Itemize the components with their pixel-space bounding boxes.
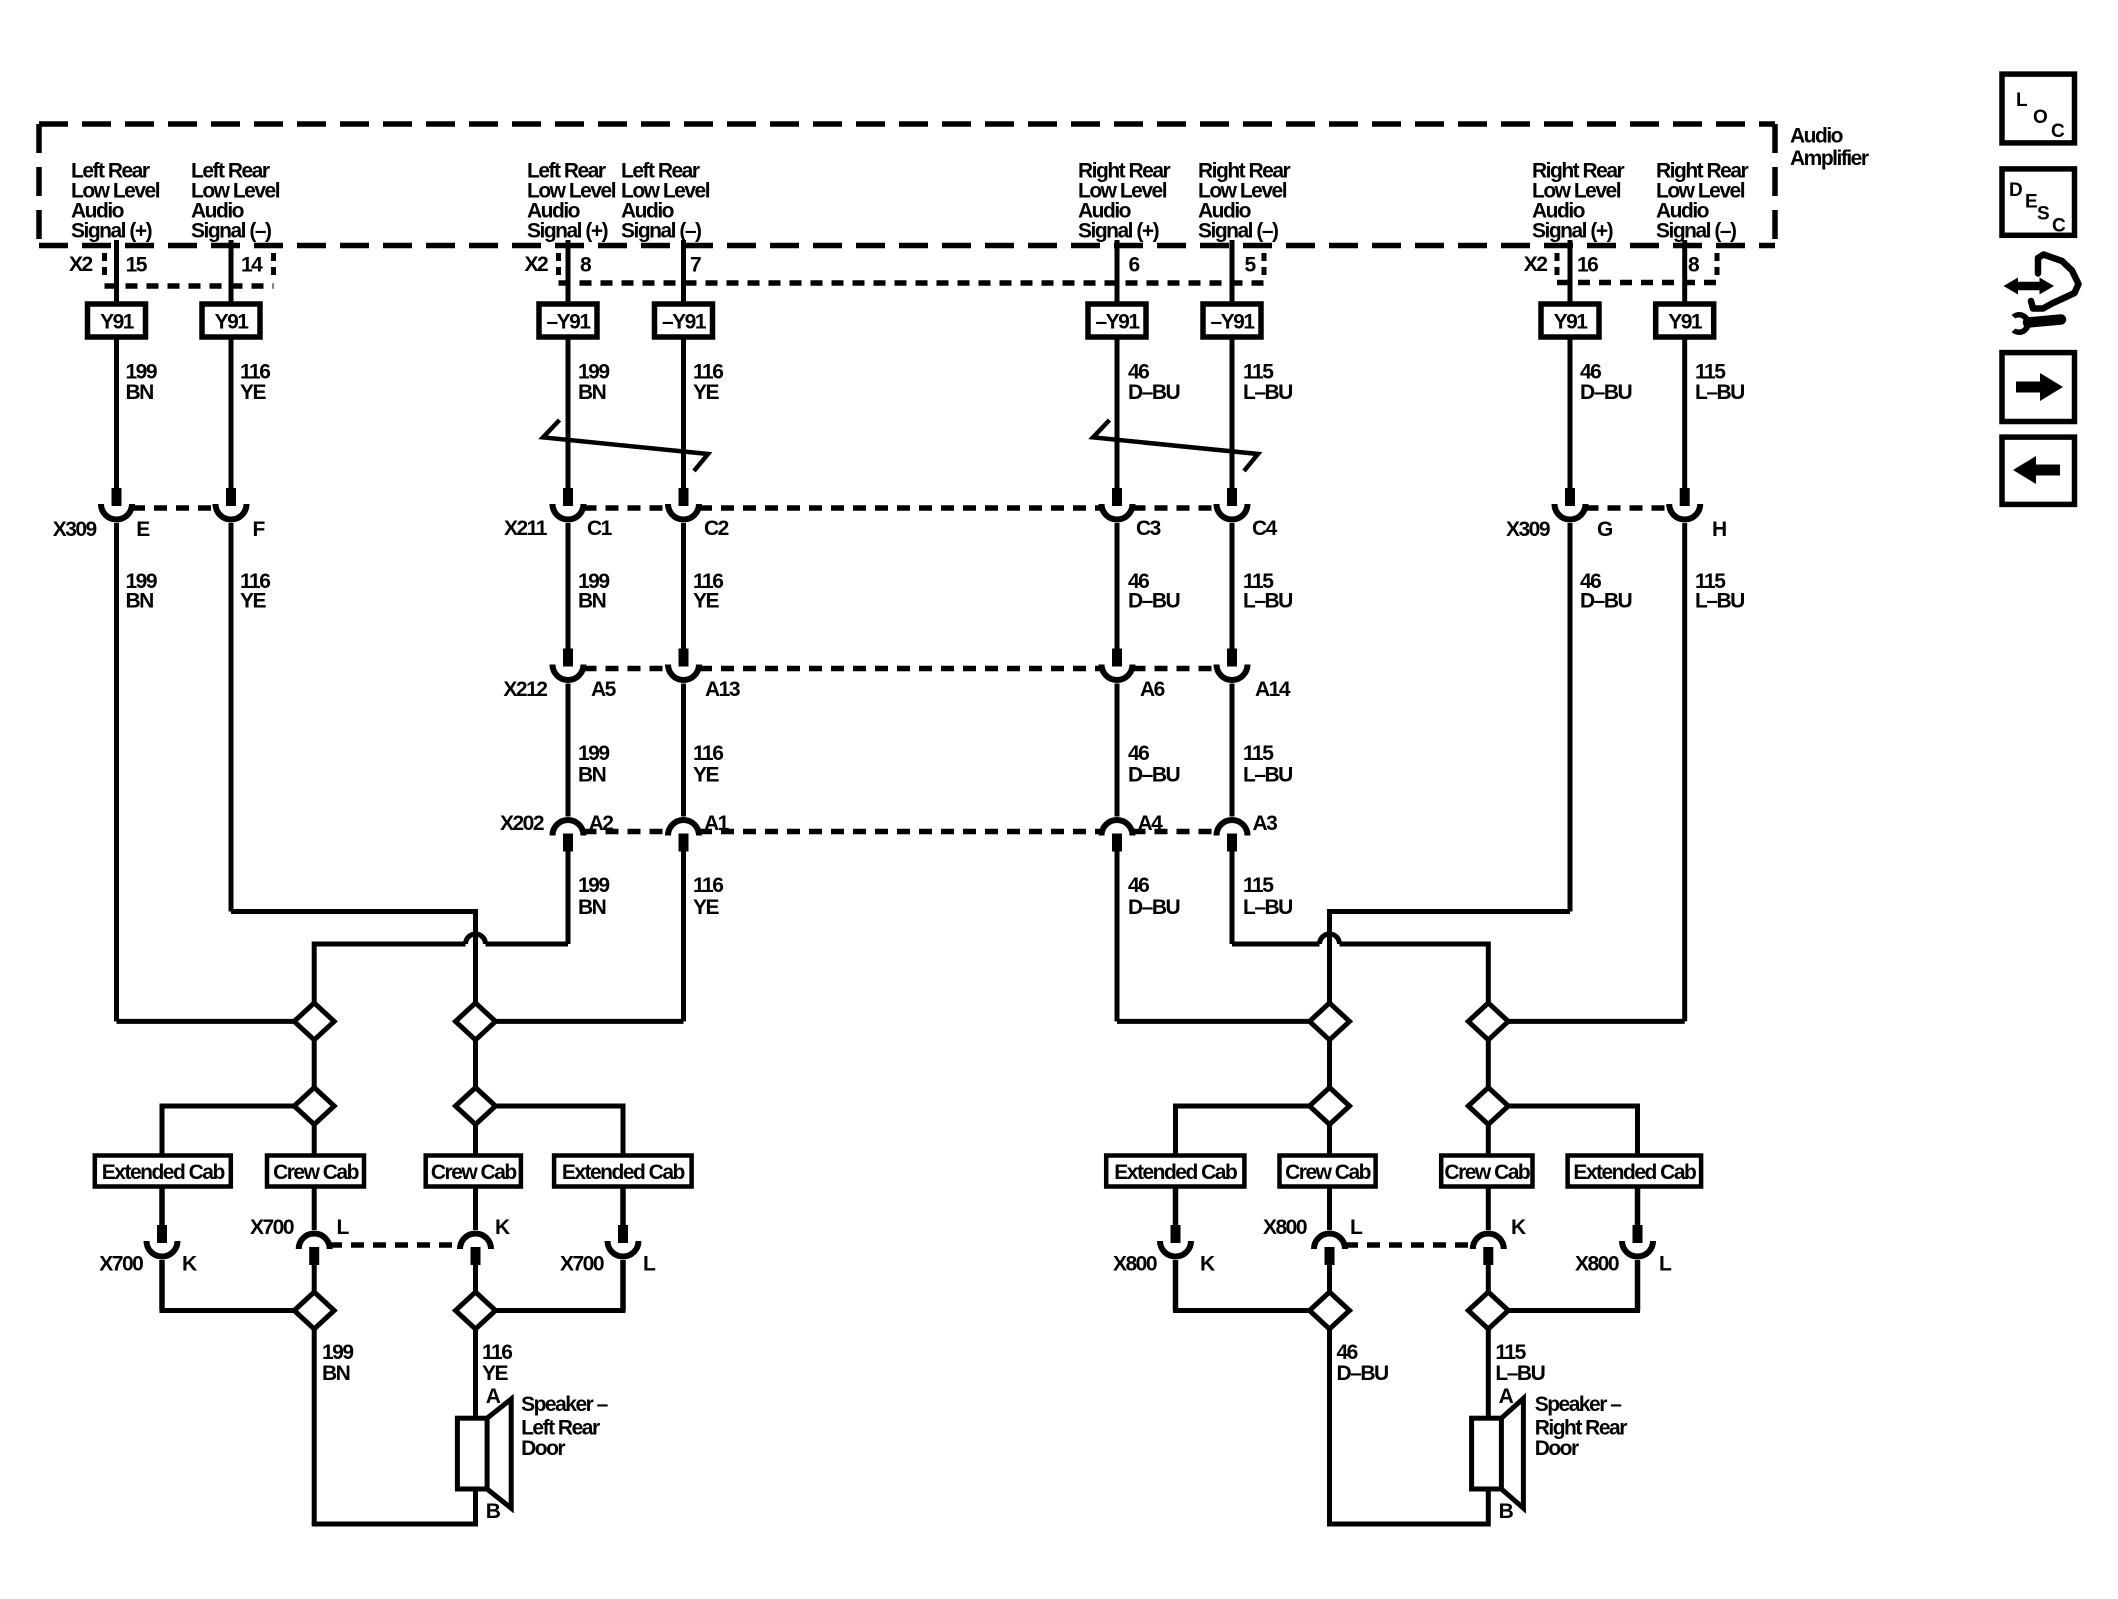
wire column 7 to splice column G (46 D-BU) [1330, 909, 1571, 1003]
wire label 46 D-BU below Y91 column 5 [1128, 361, 1180, 405]
connector X202 terminal A2 [553, 820, 584, 852]
pin C4 label [1252, 517, 1278, 540]
svg-text:X2: X2 [1524, 253, 1548, 276]
svg-text:X800: X800 [1263, 1216, 1307, 1239]
svg-text:YE: YE [240, 590, 267, 613]
wire label 115 L-BU to speaker [1495, 1341, 1544, 1385]
svg-text:YE: YE [693, 896, 720, 919]
wire label 115 L-BU below connector row 1 column 6 [1243, 570, 1292, 613]
pin K label X800 inner [1511, 1216, 1526, 1239]
svg-text:Signal (+): Signal (+) [1078, 220, 1159, 243]
component code box Y91 column 1 [88, 304, 146, 337]
wire Crew Cab to X800-K inner right [1486, 1187, 1491, 1231]
connector X700 terminal K inner [460, 1234, 491, 1266]
svg-text:Signal (+): Signal (+) [71, 220, 152, 243]
option box Extended Cab [95, 1156, 231, 1187]
wire Extended Cab to X700-L outer right [620, 1187, 626, 1226]
wire label 46 D-BU below X202 column 5 [1128, 874, 1180, 919]
icon box DESC [2002, 169, 2075, 237]
pin A label left speaker [486, 1385, 501, 1408]
svg-text:B: B [486, 1500, 501, 1523]
svg-text:BN: BN [126, 381, 154, 404]
svg-text:YE: YE [693, 764, 720, 787]
speaker - left rear door symbol [457, 1399, 511, 1508]
svg-text:7: 7 [690, 254, 701, 277]
wire diamond J to Extended Cab branch 4 [1508, 1104, 1637, 1156]
wire label 116 YE below Y91 column 4 [693, 361, 723, 405]
amplifier output label Left Rear Low Level Audio Signal (+) pin 15 [71, 160, 160, 243]
svg-text:6: 6 [1129, 254, 1140, 277]
wire Extended Cab to X800-L outer right [1635, 1187, 1641, 1226]
svg-text:Door: Door [521, 1437, 565, 1460]
svg-text:C: C [2052, 216, 2066, 237]
component code box -Y91 column 3 [539, 304, 597, 337]
pin L label X800 inner [1350, 1216, 1363, 1239]
svg-text:L–BU: L–BU [1243, 381, 1292, 404]
pin E label [136, 518, 150, 541]
svg-text:A6: A6 [1140, 678, 1165, 701]
svg-text:K: K [1200, 1253, 1215, 1276]
pin K label inner [495, 1216, 510, 1239]
svg-text:D–BU: D–BU [1580, 590, 1632, 613]
wire Y91 to connector row column 2 [229, 337, 234, 488]
wire Y91 to connector row column 4 [681, 337, 686, 488]
pin F label [253, 518, 266, 541]
connector X211 dashed link C1-C4 [584, 505, 1217, 511]
wire X700-L outer to diamond F [496, 1260, 626, 1311]
pin L label outer right [643, 1253, 656, 1276]
wire label 199 BN below Y91 column 3 [578, 361, 609, 405]
svg-text:199: 199 [322, 1341, 353, 1364]
label X202 [500, 812, 544, 835]
wire X800-K outer to diamond K [1173, 1260, 1310, 1311]
wire label 199 BN below X212 column 3 [578, 742, 609, 787]
svg-text:G: G [1597, 518, 1613, 541]
svg-text:Signal (–): Signal (–) [1198, 220, 1278, 243]
twisted-pair break symbol right pair [1093, 420, 1258, 471]
wire label 115 L-BU below Y91 column 6 [1243, 361, 1292, 405]
component code box -Y91 column 6 [1203, 304, 1261, 337]
svg-text:Door: Door [1535, 1437, 1579, 1460]
wire X800-L inner to diamond K [1327, 1265, 1332, 1292]
svg-text:D–BU: D–BU [1128, 381, 1180, 404]
wire column 3 to splice column A (199 BN) with crossover gap [314, 852, 568, 1003]
wire splice H-J vertical [1486, 1040, 1491, 1088]
label Speaker - Right Rear Door [1535, 1393, 1628, 1460]
label X2 group 2 [525, 253, 549, 276]
svg-text:115: 115 [1243, 742, 1274, 765]
pin 16 label [1577, 254, 1598, 277]
svg-text:L: L [643, 1253, 656, 1276]
svg-text:YE: YE [240, 381, 267, 404]
connector X309 terminal F [216, 488, 247, 520]
wire Extended Cab to X700-K outer left [159, 1187, 165, 1226]
svg-text:Extended Cab: Extended Cab [562, 1161, 685, 1184]
svg-text:X700: X700 [250, 1216, 294, 1239]
svg-text:Signal (+): Signal (+) [1532, 220, 1613, 243]
pin 8 label (left) [580, 254, 592, 277]
wire X309-G down column 7 [1568, 523, 1573, 912]
pin 6 label [1129, 254, 1140, 277]
svg-text:Y91: Y91 [215, 311, 250, 334]
svg-text:X2: X2 [525, 253, 549, 276]
svg-text:116: 116 [482, 1341, 512, 1364]
connector X700 dashed link L-K [329, 1242, 460, 1248]
wire amplifier pin to Y91 column 3 [566, 240, 571, 304]
svg-text:L–BU: L–BU [1695, 590, 1744, 613]
svg-text:Signal (+): Signal (+) [527, 220, 608, 243]
wire label 115 L-BU below Y91 column 8 [1695, 361, 1744, 405]
svg-text:Crew Cab: Crew Cab [431, 1161, 517, 1184]
wire amplifier pin to Y91 column 4 [681, 240, 686, 304]
svg-text:Extended Cab: Extended Cab [1114, 1161, 1237, 1184]
svg-text:L–BU: L–BU [1243, 590, 1292, 613]
amplifier output label Left Rear Low Level Audio Signal (+) pin 8 [527, 160, 616, 243]
svg-text:115: 115 [1495, 1341, 1526, 1364]
wire amplifier pin to Y91 column 8 [1682, 240, 1687, 304]
wire Crew Cab to X700-L inner left [312, 1187, 317, 1231]
svg-text:Y91: Y91 [100, 311, 135, 334]
component code box Y91 column 7 [1541, 304, 1599, 337]
svg-text:Signal (–): Signal (–) [191, 220, 271, 243]
pin L label inner [337, 1216, 350, 1239]
wire X212-A6 to X202-A4 [1115, 684, 1120, 817]
svg-text:A3: A3 [1253, 812, 1278, 835]
svg-text:L: L [1350, 1216, 1363, 1239]
wire label 46 D-BU to speaker [1337, 1341, 1389, 1385]
audio amplifier dashed enclosure [39, 124, 1775, 246]
svg-text:X2: X2 [69, 253, 93, 276]
pin 8 label (right) [1688, 254, 1700, 277]
option splice diamond J [1468, 1088, 1508, 1125]
wire X211-C2 to X212-A13 [681, 523, 686, 649]
svg-text:F: F [253, 518, 266, 541]
svg-text:A13: A13 [705, 678, 740, 701]
label X211 [504, 517, 548, 540]
svg-text:–Y91: –Y91 [1210, 311, 1255, 334]
wire column 1 to splice A left vertex [117, 1019, 295, 1024]
wire label 116 YE below X212 column 4 [693, 742, 723, 787]
svg-text:X700: X700 [99, 1253, 143, 1276]
pin 7 label [690, 254, 701, 277]
pin A13 label [705, 678, 740, 701]
wire diamond L to speaker terminal A right [1486, 1329, 1491, 1418]
svg-text:Y91: Y91 [1554, 311, 1589, 334]
svg-text:L: L [337, 1216, 350, 1239]
wire label 46 D-BU below X212 column 5 [1128, 742, 1180, 787]
pin A2 label [589, 812, 614, 835]
option splice diamond C [294, 1088, 334, 1125]
wire Extended Cab to X800-K outer left [1173, 1187, 1179, 1226]
label X800 outer left [1113, 1253, 1157, 1276]
label X800 inner [1263, 1216, 1307, 1239]
connector X309 dashed link E-F [132, 505, 216, 511]
connector X309 terminal G [1555, 488, 1586, 520]
connector X212 dashed link A5-A14 [584, 666, 1217, 672]
svg-text:D–BU: D–BU [1337, 1362, 1389, 1385]
label X212 [503, 678, 547, 701]
wire amplifier pin to Y91 column 6 [1230, 240, 1235, 304]
svg-text:L–BU: L–BU [1695, 381, 1744, 404]
svg-text:L: L [1659, 1253, 1672, 1276]
svg-text:E: E [2025, 192, 2037, 213]
pin B label left speaker [486, 1500, 501, 1523]
pin H label [1712, 518, 1726, 541]
svg-text:X211: X211 [504, 517, 548, 540]
svg-text:115: 115 [1243, 874, 1274, 897]
connector X309 dashed link G-H [1586, 505, 1670, 511]
pin C3 label [1136, 517, 1161, 540]
wire splice A-C vertical [312, 1040, 317, 1088]
connector X211 terminal C1 [553, 488, 584, 520]
splice diamond H (115 L-BU junction) [1468, 1003, 1508, 1040]
wire label 116 YE below connector row 1 column 4 [693, 570, 723, 613]
icon box arrow left [2002, 437, 2075, 504]
connector X211 terminal C4 [1217, 488, 1248, 520]
pin 14 label [241, 254, 263, 277]
svg-text:C3: C3 [1136, 517, 1161, 540]
svg-text:Y91: Y91 [1668, 311, 1703, 334]
icon wrench and arrows (service information) [2004, 255, 2079, 336]
connector X800 terminal L outer [1622, 1225, 1653, 1257]
pin A14 label [1255, 678, 1291, 701]
svg-text:K: K [495, 1216, 510, 1239]
pin 15 label [126, 254, 148, 277]
connector X700 terminal L inner [299, 1234, 330, 1266]
svg-text:BN: BN [126, 590, 154, 613]
wire splice G-I vertical [1327, 1040, 1332, 1088]
svg-text:116: 116 [693, 742, 723, 765]
wire splice B-D vertical [473, 1040, 478, 1088]
wire Y91 to connector row column 6 [1230, 337, 1235, 488]
svg-text:L–BU: L–BU [1243, 896, 1292, 919]
pin A4 label [1138, 812, 1164, 835]
wire column 4 to splice B right vertex [496, 852, 684, 1022]
wire amplifier pin to Y91 column 5 [1115, 240, 1120, 304]
svg-text:X212: X212 [503, 678, 547, 701]
amplifier output label Left Rear Low Level Audio Signal (-) pin 14 [191, 160, 280, 243]
wire diamond C to Crew Cab branch [312, 1125, 317, 1156]
connector X211 terminal C3 [1102, 488, 1133, 520]
svg-text:199: 199 [578, 742, 609, 765]
connector X700 terminal K outer [147, 1225, 178, 1257]
wire X800-L outer to diamond L [1508, 1260, 1640, 1311]
wire label 199 BN below X202 column 3 [578, 874, 609, 919]
label X309 right [1506, 518, 1550, 541]
splice diamond E (199 BN) [294, 1292, 334, 1329]
connector X212 terminal A14 [1217, 649, 1248, 681]
label Audio Amplifier [1790, 125, 1869, 171]
wire X309-E down column 1 [114, 523, 119, 1021]
wire Y91 to connector row column 8 [1682, 337, 1687, 488]
svg-text:S: S [2037, 204, 2049, 225]
wire label 115 L-BU below X212 column 6 [1243, 742, 1292, 787]
svg-text:A1: A1 [704, 812, 730, 835]
svg-text:C2: C2 [704, 517, 729, 540]
svg-text:BN: BN [578, 896, 606, 919]
pin L label X800 outer right [1659, 1253, 1672, 1276]
wire X700-K outer to diamond E [160, 1260, 295, 1311]
svg-text:Amplifier: Amplifier [1790, 147, 1869, 170]
connector X202 terminal A3 [1217, 820, 1248, 852]
pin A3 label [1253, 812, 1278, 835]
wire diamond D to Crew Cab branch 2 [473, 1125, 478, 1156]
wire X309-F down column 2 [229, 523, 234, 912]
wire Crew Cab to X700-K inner right [473, 1187, 478, 1231]
splice diamond A (199 BN junction) [294, 1003, 334, 1040]
svg-text:YE: YE [482, 1362, 509, 1385]
connector X2 dashed pin-row group 4 [1557, 253, 1717, 283]
svg-text:K: K [1511, 1216, 1526, 1239]
option box Crew Cab [1441, 1156, 1532, 1187]
wire diamond F to speaker terminal A [473, 1329, 478, 1418]
amplifier output label Right Rear Low Level Audio Signal (+) pin 16 [1532, 160, 1625, 243]
pin C2 label [704, 517, 729, 540]
pin G label [1597, 518, 1613, 541]
svg-text:X202: X202 [500, 812, 544, 835]
pin A6 label [1140, 678, 1165, 701]
wire diamond J to Crew Cab branch 4 [1486, 1125, 1491, 1156]
svg-text:L–BU: L–BU [1243, 764, 1292, 787]
connector X2 dashed pin-row group 1 [105, 253, 274, 286]
wire label 199 BN below connector row 1 column 3 [578, 570, 609, 613]
svg-text:C: C [2051, 121, 2065, 142]
wire column 2 to splice column B (116 YE) [231, 909, 476, 1003]
wire crossover hop left [466, 934, 486, 944]
wire diamond I to Crew Cab branch 3 [1327, 1125, 1332, 1156]
svg-text:A: A [1499, 1385, 1514, 1408]
twisted-pair break symbol left pair [543, 420, 708, 471]
wire X211-C3 to X212-A6 [1115, 523, 1120, 649]
svg-text:BN: BN [578, 381, 606, 404]
wire label 115 L-BU below X202 column 6 [1243, 874, 1292, 919]
wire label 116 YE below X202 column 4 [693, 874, 723, 919]
wire Y91 to connector row column 3 [566, 337, 571, 488]
svg-text:BN: BN [578, 590, 606, 613]
connector X212 terminal A5 [553, 649, 584, 681]
label X700 outer left [99, 1253, 143, 1276]
pin K label X800 outer left [1200, 1253, 1215, 1276]
wire Y91 to connector row column 7 [1568, 337, 1573, 488]
svg-text:A: A [486, 1385, 501, 1408]
svg-text:D–BU: D–BU [1128, 764, 1180, 787]
svg-text:Crew Cab: Crew Cab [1285, 1161, 1371, 1184]
component code box -Y91 column 5 [1088, 304, 1146, 337]
wire amplifier pin to Y91 column 1 [114, 240, 119, 304]
svg-text:D–BU: D–BU [1128, 896, 1180, 919]
connector X309 terminal H [1669, 488, 1700, 520]
svg-text:16: 16 [1577, 254, 1598, 277]
wire label 115 L-BU below connector row 1 column 8 [1695, 570, 1744, 613]
wire X211-C1 to X212-A5 [566, 523, 571, 649]
wire column 6 to splice column H (115 L-BU) with crossover gap [1232, 852, 1488, 1003]
svg-text:D–BU: D–BU [1580, 381, 1632, 404]
svg-text:Crew Cab: Crew Cab [273, 1161, 359, 1184]
wire X700-L inner to diamond E [312, 1265, 317, 1292]
pin C1 label [587, 517, 613, 540]
svg-text:–Y91: –Y91 [546, 311, 591, 334]
wire Y91 to connector row column 1 [114, 337, 119, 488]
svg-text:C4: C4 [1252, 517, 1278, 540]
option box Extended Cab [1106, 1156, 1244, 1187]
wire X212-A14 to X202-A3 [1230, 684, 1235, 817]
pin A1 label [704, 812, 730, 835]
connector X2 dashed pin-row group 2-3 [559, 253, 1265, 283]
pin A5 label [591, 678, 617, 701]
wire amplifier pin to Y91 column 2 [229, 240, 234, 304]
connector X700 terminal L outer [608, 1225, 639, 1257]
svg-text:O: O [2033, 107, 2047, 128]
option box Crew Cab [267, 1156, 364, 1187]
label X2 group 1 [69, 253, 93, 276]
wire diamond E to speaker terminal B [312, 1329, 476, 1527]
wire X309-H down column 8 [1682, 523, 1687, 1021]
svg-text:H: H [1712, 518, 1726, 541]
splice diamond K (46 D-BU) [1310, 1292, 1350, 1329]
svg-text:Signal (–): Signal (–) [1656, 220, 1736, 243]
svg-text:C1: C1 [587, 517, 613, 540]
wire X211-C4 to X212-A14 [1230, 523, 1235, 649]
amplifier output label Right Rear Low Level Audio Signal (+) pin 6 [1078, 160, 1171, 243]
component code box -Y91 column 4 [655, 304, 713, 337]
svg-text:46: 46 [1128, 742, 1149, 765]
label X700 inner [250, 1216, 294, 1239]
label Speaker - Left Rear Door [521, 1393, 609, 1460]
component code box Y91 column 2 [202, 304, 260, 337]
connector X211 terminal C2 [668, 488, 699, 520]
wire X212-A5 to X202-A2 [566, 684, 571, 817]
wire Y91 to connector row column 5 [1115, 337, 1120, 488]
pin A label right speaker [1499, 1385, 1514, 1408]
connector X212 terminal A13 [668, 649, 699, 681]
amplifier output label Right Rear Low Level Audio Signal (-) pin 5 [1198, 160, 1291, 243]
speaker - right rear door symbol [1472, 1398, 1524, 1508]
connector X202 terminal A4 [1102, 820, 1133, 852]
svg-text:A2: A2 [589, 812, 614, 835]
component code box Y91 column 8 [1656, 304, 1714, 337]
wire label 116 YE to speaker [482, 1341, 512, 1385]
pin B label right speaker [1499, 1500, 1514, 1523]
svg-text:Speaker –: Speaker – [1535, 1393, 1623, 1416]
wire label 46 D-BU below Y91 column 7 [1580, 361, 1632, 405]
connector X202 terminal A1 [668, 820, 699, 852]
svg-text:Extended Cab: Extended Cab [1573, 1161, 1696, 1184]
wire X800-K inner to diamond L [1486, 1265, 1491, 1292]
connector X800 terminal K outer [1160, 1225, 1191, 1257]
connector X202 dashed link A2-A3 [584, 829, 1217, 835]
wire diamond C to Extended Cab left branch [162, 1104, 294, 1156]
label X309 left [53, 518, 97, 541]
wire label 199 BN to speaker [322, 1341, 353, 1385]
splice diamond G (46 D-BU junction) [1310, 1003, 1350, 1040]
svg-text:116: 116 [693, 874, 723, 897]
wire label 116 YE below connector row 1 column 2 [240, 570, 270, 613]
svg-text:E: E [136, 518, 150, 541]
wire column 8 to splice H right vertex [1508, 1019, 1684, 1024]
svg-text:Crew Cab: Crew Cab [1444, 1161, 1530, 1184]
wire label 199 BN below connector row 1 column 1 [126, 570, 157, 613]
svg-text:14: 14 [241, 254, 263, 277]
connector X309 terminal E [101, 488, 132, 520]
svg-text:Signal (–): Signal (–) [621, 220, 701, 243]
svg-text:K: K [182, 1253, 197, 1276]
wire Crew Cab to X800-L inner left [1327, 1187, 1332, 1231]
svg-text:–Y91: –Y91 [662, 311, 707, 334]
svg-text:199: 199 [578, 874, 609, 897]
wire label 199 BN below Y91 column 1 [126, 361, 157, 405]
wire amplifier pin to Y91 column 7 [1568, 240, 1573, 304]
wire X700-K inner to diamond F [473, 1265, 478, 1292]
